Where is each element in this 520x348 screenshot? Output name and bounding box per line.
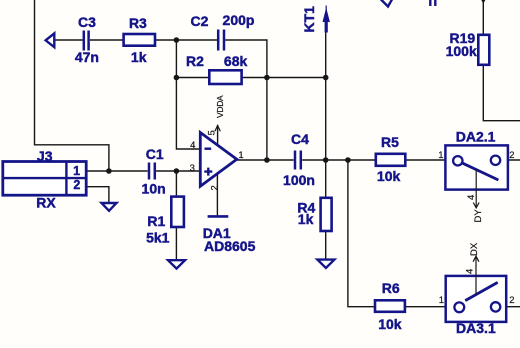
- svg-text:C1: C1: [146, 146, 164, 162]
- svg-text:47n: 47n: [75, 49, 99, 65]
- svg-text:R5: R5: [381, 134, 399, 150]
- svg-text:4: 4: [466, 195, 477, 200]
- svg-text:KT1: KT1: [301, 6, 317, 33]
- svg-text:1: 1: [238, 150, 243, 161]
- svg-text:4: 4: [190, 140, 195, 151]
- svg-text:R2: R2: [186, 53, 204, 69]
- svg-text:100n: 100n: [283, 172, 315, 188]
- svg-text:C4: C4: [291, 131, 309, 147]
- svg-text:RX: RX: [36, 195, 56, 211]
- svg-text:DA2.1: DA2.1: [456, 129, 496, 145]
- svg-text:R6: R6: [382, 280, 400, 296]
- svg-text:10k: 10k: [378, 316, 402, 332]
- svg-text:10n: 10n: [142, 181, 166, 197]
- svg-text:C3: C3: [78, 14, 96, 30]
- svg-text:2: 2: [509, 295, 514, 306]
- svg-text:100k: 100k: [446, 43, 477, 59]
- svg-text:1k: 1k: [131, 49, 147, 65]
- svg-text:1: 1: [439, 295, 444, 306]
- svg-text:2: 2: [73, 178, 80, 192]
- svg-text:1: 1: [73, 164, 80, 178]
- svg-text:4: 4: [465, 269, 476, 274]
- svg-text:J3: J3: [37, 148, 53, 164]
- svg-text:5: 5: [207, 130, 218, 135]
- svg-text:R1: R1: [147, 213, 165, 229]
- svg-text:DX: DX: [469, 242, 480, 256]
- svg-text:3: 3: [190, 163, 195, 174]
- svg-text:AD8605: AD8605: [204, 238, 256, 254]
- svg-text:DA3.1: DA3.1: [456, 320, 496, 336]
- svg-text:10k: 10k: [377, 168, 401, 184]
- svg-text:68k: 68k: [224, 53, 248, 69]
- svg-text:DY: DY: [473, 209, 484, 223]
- svg-text:R3: R3: [129, 15, 147, 31]
- svg-text:C2: C2: [191, 13, 209, 29]
- svg-text:1: 1: [438, 150, 443, 161]
- svg-text:VDDA: VDDA: [215, 95, 225, 118]
- svg-text:200p: 200p: [223, 12, 255, 28]
- svg-text:1k: 1k: [298, 211, 314, 227]
- svg-text:5k1: 5k1: [146, 230, 170, 246]
- svg-text:2: 2: [509, 150, 514, 161]
- svg-text:2: 2: [209, 185, 220, 190]
